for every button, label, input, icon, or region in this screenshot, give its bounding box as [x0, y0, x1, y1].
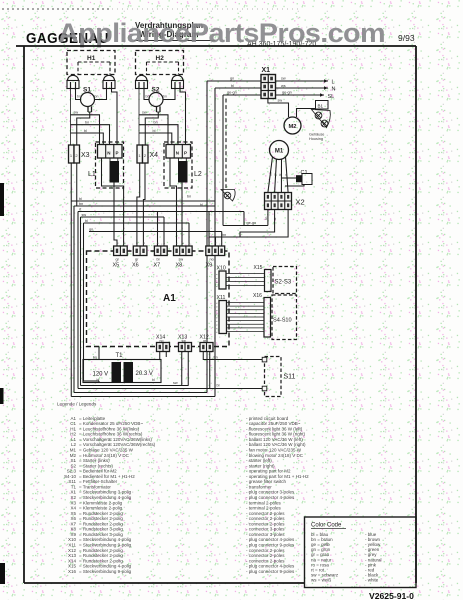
svg-text:= Rundstecker 3-polig: = Rundstecker 3-polig — [79, 532, 123, 537]
svg-text:= Hubmotor 24(18) V DC: = Hubmotor 24(18) V DC — [79, 453, 130, 458]
svg-text:B1: B1 — [318, 104, 324, 109]
svg-text:X3: X3 — [70, 500, 76, 505]
svg-text:= Gebläse 120 VAC/235 W: = Gebläse 120 VAC/235 W — [79, 447, 134, 452]
svg-text:H2: H2 — [70, 432, 76, 437]
svg-text:S2: S2 — [152, 87, 160, 94]
svg-text:bn: bn — [77, 95, 81, 99]
svg-text:C1: C1 — [70, 421, 76, 426]
svg-text:H2: H2 — [156, 55, 165, 62]
svg-text:X2: X2 — [296, 198, 305, 207]
svg-text:bl: bl — [97, 378, 100, 382]
svg-text:- connector 3-poles: - connector 3-poles — [246, 532, 285, 537]
svg-text:bl: bl — [157, 257, 160, 261]
svg-text:M1: M1 — [275, 149, 284, 155]
svg-text:= Fettfilter-Schalter: = Fettfilter-Schalter — [79, 479, 118, 484]
svg-text:- plug connector 4-poles: - plug connector 4-poles — [246, 564, 295, 569]
svg-text:X14: X14 — [68, 558, 77, 563]
svg-text:M2: M2 — [288, 124, 296, 130]
svg-text:- plug connector 9-poles: - plug connector 9-poles — [246, 543, 295, 548]
svg-text:20.3 V: 20.3 V — [136, 371, 153, 377]
svg-text:X2: X2 — [70, 495, 76, 500]
svg-text:= Steckverbindung 4-polig: = Steckverbindung 4-polig — [79, 495, 132, 500]
svg-text:T1: T1 — [71, 484, 77, 489]
svg-text:- connector 2-poles: - connector 2-poles — [246, 558, 285, 563]
svg-text:- connector 2-poles: - connector 2-poles — [246, 548, 285, 553]
svg-text:bn: bn — [222, 233, 226, 237]
svg-text:- plug connector 4-poles: - plug connector 4-poles — [246, 495, 295, 500]
svg-text:- printed circuit board: - printed circuit board — [246, 416, 289, 421]
svg-text:S2-S3: S2-S3 — [275, 280, 292, 286]
svg-text:sw: sw — [278, 99, 283, 103]
svg-text:L1: L1 — [71, 437, 77, 442]
svg-text:- starter (left): - starter (left) — [246, 458, 272, 463]
svg-text:L1: L1 — [88, 171, 96, 178]
svg-text:sw: sw — [142, 111, 147, 115]
svg-text:S2: S2 — [70, 463, 76, 468]
svg-text:- connector 2-poles: - connector 2-poles — [246, 516, 285, 521]
svg-text:- fluorescent light 36 W (righ: - fluorescent light 36 W (right) — [246, 432, 306, 437]
svg-text:= Steckverbindung 3-polig: = Steckverbindung 3-polig — [79, 490, 132, 495]
svg-text:X1: X1 — [70, 490, 76, 495]
svg-text:- plug connector 3-poles: - plug connector 3-poles — [246, 490, 295, 495]
svg-text:- ballast 120 VAC/36 W (left): - ballast 120 VAC/36 W (left) — [246, 437, 303, 442]
svg-text:sw: sw — [281, 77, 286, 81]
svg-text:T1: T1 — [116, 353, 124, 359]
svg-text:- fluorescent light 36 W (left: - fluorescent light 36 W (left) — [246, 426, 303, 431]
svg-text:- terminal 2-poles: - terminal 2-poles — [246, 506, 282, 511]
svg-text:= Rundstecker 2-polig: = Rundstecker 2-polig — [79, 516, 123, 521]
svg-text:= Starter (links): = Starter (links) — [79, 458, 110, 463]
svg-text:bl: bl — [84, 129, 87, 133]
svg-text:bn: bn — [163, 95, 167, 99]
svg-text:- plug connector 4-poles: - plug connector 4-poles — [246, 537, 295, 542]
svg-text:9/93: 9/93 — [398, 33, 415, 43]
svg-text:H1: H1 — [70, 426, 76, 431]
svg-text:- operating part for M2: - operating part for M2 — [246, 469, 291, 474]
svg-text:- fan motor 120 VAC/235 W: - fan motor 120 VAC/235 W — [246, 447, 302, 452]
svg-text:N: N — [107, 151, 110, 156]
svg-text:X16: X16 — [68, 569, 77, 574]
svg-text:= Rundstecker 2-polig: = Rundstecker 2-polig — [79, 548, 123, 553]
svg-text:= Steckverbindung 9-polig: = Steckverbindung 9-polig — [79, 543, 132, 548]
svg-text:sw: sw — [179, 257, 184, 261]
svg-text:Legende / Legends: Legende / Legends — [57, 402, 97, 407]
svg-text:bl: bl — [200, 203, 203, 207]
svg-text:X15: X15 — [254, 265, 263, 271]
svg-text:X5: X5 — [113, 263, 120, 269]
svg-text:= Bedienteil für M1 + H1-H2: = Bedienteil für M1 + H1-H2 — [79, 474, 135, 479]
svg-text:S1: S1 — [70, 458, 76, 463]
svg-text:- operating part for M1 + H1-H: - operating part for M1 + H1-H2 — [246, 474, 309, 479]
svg-text:bl: bl — [278, 173, 282, 176]
svg-text:X7: X7 — [154, 263, 161, 269]
svg-text:= Steckverbindung 4-polig: = Steckverbindung 4-polig — [79, 564, 132, 569]
svg-text:- terminal 2-poles: - terminal 2-poles — [246, 500, 282, 505]
svg-text:sw: sw — [173, 381, 178, 385]
svg-text:bn: bn — [187, 194, 191, 198]
svg-text:ws = weiß: ws = weiß — [311, 577, 331, 582]
svg-text:H1: H1 — [87, 55, 96, 62]
svg-text:V2625-91-0: V2625-91-0 — [369, 591, 414, 600]
svg-text:= Rundstecker 2-polig: = Rundstecker 2-polig — [79, 558, 123, 563]
svg-text:S2,3: S2,3 — [67, 469, 77, 474]
svg-text:M1: M1 — [70, 447, 77, 452]
svg-text:X12: X12 — [68, 548, 77, 553]
svg-text:P: P — [184, 151, 187, 156]
svg-text:gn: gn — [230, 77, 234, 81]
svg-text:ge-gn: ge-gn — [247, 221, 257, 225]
svg-text:ws: ws — [281, 84, 286, 88]
svg-text:= Rundstecker 3-polig: = Rundstecker 3-polig — [79, 527, 123, 532]
svg-text:- grease filter switch: - grease filter switch — [246, 479, 287, 484]
svg-text:X11: X11 — [68, 543, 76, 548]
svg-text:bn: bn — [85, 121, 89, 125]
svg-text:X4: X4 — [150, 152, 159, 159]
svg-text:S4-10: S4-10 — [64, 474, 77, 479]
svg-text:Housing: Housing — [309, 137, 323, 141]
svg-text:AppliancePartsPros.com: AppliancePartsPros.com — [58, 18, 385, 48]
svg-text:X9: X9 — [70, 532, 76, 537]
svg-text:sw: sw — [74, 111, 79, 115]
svg-text:SL: SL — [328, 94, 335, 100]
svg-text:ge-gn: ge-gn — [282, 91, 292, 95]
svg-text:Color Code: Color Code — [311, 523, 342, 529]
svg-text:X15: X15 — [68, 564, 77, 569]
svg-text:N: N — [332, 87, 336, 93]
svg-text:ge-gn: ge-gn — [227, 91, 237, 95]
svg-text:L2: L2 — [194, 171, 202, 178]
svg-text:bl: bl — [153, 129, 156, 133]
svg-text:120 V: 120 V — [93, 372, 109, 378]
svg-text:X4: X4 — [70, 506, 76, 511]
svg-text:bn: bn — [214, 355, 218, 359]
svg-text:bn: bn — [93, 356, 97, 360]
svg-text:- connector 3-poles: - connector 3-poles — [246, 527, 285, 532]
svg-text:X8: X8 — [176, 263, 183, 269]
svg-text:= Rundstecker 2-polig: = Rundstecker 2-polig — [79, 553, 123, 558]
svg-text:X3: X3 — [81, 152, 90, 159]
svg-text:A1: A1 — [163, 293, 176, 304]
svg-text:- ballast 120 VAC/36 W (right): - ballast 120 VAC/36 W (right) — [246, 442, 306, 447]
svg-text:N: N — [176, 151, 179, 156]
svg-text:- plug connector 9-poles: - plug connector 9-poles — [246, 569, 295, 574]
svg-text:= Klemmleiste 2-polig: = Klemmleiste 2-polig — [79, 506, 123, 511]
svg-text:X5: X5 — [70, 511, 76, 516]
svg-text:- white: - white — [365, 577, 379, 582]
svg-text:= Klemmleiste 2-polig: = Klemmleiste 2-polig — [79, 500, 123, 505]
svg-text:X8: X8 — [70, 527, 76, 532]
svg-text:- connector 2-poles: - connector 2-poles — [246, 553, 285, 558]
svg-text:M2: M2 — [70, 453, 77, 458]
svg-text:bl: bl — [231, 84, 234, 88]
svg-text:X6: X6 — [70, 516, 76, 521]
svg-text:- blowing motor 24(18) V DC: - blowing motor 24(18) V DC — [246, 453, 304, 458]
svg-text:bn: bn — [146, 95, 150, 99]
svg-text:S11: S11 — [284, 374, 296, 381]
svg-text:= Vorschaltgerät 120VAC/36W(li: = Vorschaltgerät 120VAC/36W(links) — [79, 437, 152, 442]
svg-text:no: no — [210, 257, 214, 261]
svg-text:X13: X13 — [68, 553, 77, 558]
svg-text:L: L — [332, 80, 335, 86]
svg-text:P: P — [116, 151, 119, 156]
svg-text:X10: X10 — [68, 537, 77, 542]
svg-text:- capacitor 25uF/250 VDB~: - capacitor 25uF/250 VDB~ — [246, 421, 301, 426]
svg-text:- connector 2-poles: - connector 2-poles — [246, 511, 285, 516]
svg-text:= Leuchtstoffröhre 36 W(links): = Leuchtstoffröhre 36 W(links) — [79, 426, 140, 431]
svg-text:S4-S10: S4-S10 — [273, 318, 292, 324]
svg-text:bn: bn — [264, 216, 268, 220]
svg-text:= Kondensator 25 uF/250 VDB~: = Kondensator 25 uF/250 VDB~ — [79, 421, 143, 426]
svg-text:rt: rt — [284, 174, 288, 176]
svg-text:= Steckverbindung 9-polig: = Steckverbindung 9-polig — [79, 569, 132, 574]
svg-text:bl: bl — [79, 197, 82, 201]
svg-text:= Steckverbindung 4-polig: = Steckverbindung 4-polig — [79, 537, 132, 542]
svg-text:X9: X9 — [206, 263, 213, 269]
svg-text:= Leiterplatte: = Leiterplatte — [79, 416, 106, 421]
svg-text:= Leuchtstoffröhre 36 W(rechts: = Leuchtstoffröhre 36 W(rechts) — [79, 432, 143, 437]
svg-text:X6: X6 — [132, 263, 139, 269]
svg-text:S11: S11 — [68, 479, 76, 484]
svg-text:A1: A1 — [70, 416, 76, 421]
svg-text:- connector 2-poles: - connector 2-poles — [246, 521, 285, 526]
svg-text:= Starter (rechts): = Starter (rechts) — [79, 463, 113, 468]
svg-text:= Transformator: = Transformator — [79, 484, 111, 489]
svg-text:bn: bn — [154, 121, 158, 125]
svg-text:= Vorschaltgerät 120VAC/36W(re: = Vorschaltgerät 120VAC/36W(rechts) — [79, 442, 156, 447]
svg-text:bl: bl — [152, 378, 155, 382]
svg-text:bn: bn — [95, 95, 99, 99]
svg-text:S1: S1 — [83, 87, 91, 94]
svg-text:gr: gr — [273, 173, 277, 176]
svg-text:= Bedienteil für M2: = Bedienteil für M2 — [79, 469, 117, 474]
svg-text:bl: bl — [217, 384, 220, 388]
svg-text:X7: X7 — [70, 521, 76, 526]
svg-text:Gehäuse: Gehäuse — [309, 133, 324, 137]
svg-text:= Rundstecker 2-polig: = Rundstecker 2-polig — [79, 511, 123, 516]
svg-text:- transformer: - transformer — [246, 484, 272, 489]
svg-text:L2: L2 — [71, 442, 77, 447]
svg-text:- starter (right): - starter (right) — [246, 463, 275, 468]
svg-text:X16: X16 — [253, 293, 262, 299]
svg-text:= Rundstecker 2-polig: = Rundstecker 2-polig — [79, 521, 123, 526]
svg-text:X1: X1 — [262, 67, 271, 74]
